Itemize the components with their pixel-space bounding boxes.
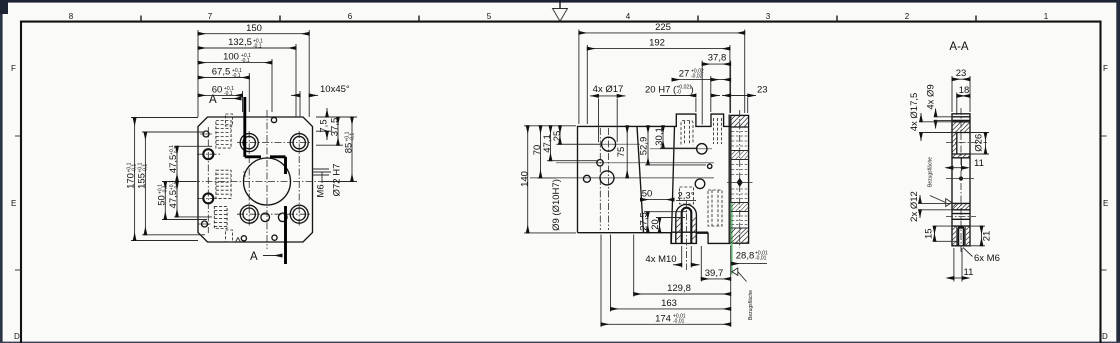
bottom dark line [0, 342, 1120, 343]
line 15 ref [934, 240, 957, 242]
svg-text:4x Ø17: 4x Ø17 [593, 84, 624, 95]
hole centerline horizontals [556, 143, 640, 145]
zone numbers top [69, 12, 1049, 21]
zone letters right [1102, 64, 1108, 341]
svg-text:174: 174 [655, 313, 671, 324]
small hole bottom mid [272, 235, 277, 240]
svg-text:39,7: 39,7 [705, 268, 724, 279]
svg-text:85: 85 [344, 143, 355, 154]
keyway hidden lines in bore left [243, 172, 248, 176]
dim 11 lower [954, 248, 962, 282]
dim 163 [611, 308, 731, 310]
svg-text:60: 60 [212, 84, 223, 95]
4x D17 hole lower [600, 171, 614, 185]
small hole bottom mid-left [241, 236, 246, 241]
hidden hole top center [226, 114, 233, 126]
svg-text:170: 170 [126, 173, 137, 189]
dim D26 [970, 132, 989, 134]
centering mark triangle [553, 0, 568, 21]
M6 side tap right edge [313, 169, 332, 175]
svg-text:20: 20 [650, 219, 661, 230]
svg-text:-0,1: -0,1 [349, 133, 355, 142]
dim 132,5 [198, 47, 296, 49]
body right edge vertical [728, 115, 730, 244]
svg-text:7,5: 7,5 [319, 119, 330, 132]
small hole top mid [271, 117, 276, 122]
bolt hole top-left inner [243, 136, 255, 148]
svg-text:Ø72 H7: Ø72 H7 [332, 164, 343, 197]
svg-text:23: 23 [956, 68, 967, 79]
dim 18 right view [957, 95, 970, 97]
hidden slot top center piece [681, 121, 693, 145]
dim 2x D12 [919, 195, 921, 203]
hidden slot bottom right region [708, 190, 722, 226]
svg-text:50: 50 [157, 195, 168, 206]
hidden thread block middle left [216, 170, 231, 198]
zone ticks left/right frame [15, 136, 1107, 270]
left dowel ring upper [203, 149, 213, 159]
face slant edge 2.3deg [637, 126, 644, 232]
bolt column centerline left [248, 131, 250, 226]
plate outline with chamfered corners [198, 117, 313, 242]
svg-text:D: D [1102, 332, 1108, 341]
top dark bar [0, 0, 1120, 3]
dim 50 vertical [164, 182, 166, 220]
hidden thread block bottom left [214, 206, 227, 228]
M6 tapped section band [952, 225, 970, 227]
svg-text:10x45°: 10x45° [320, 84, 350, 95]
dim 170 vertical [134, 118, 136, 241]
dim 192 [587, 48, 730, 50]
svg-text:-0,1: -0,1 [174, 181, 180, 190]
keyhole centerline [686, 201, 688, 270]
small hole top-left [203, 131, 209, 137]
svg-text:11: 11 [964, 267, 974, 278]
dim 52,9 [647, 126, 649, 165]
bolt hole bottom-right outer [290, 205, 308, 223]
svg-text:Ø9 (Ø10H7): Ø9 (Ø10H7) [551, 179, 562, 231]
svg-text:192: 192 [649, 38, 665, 49]
label M6 rotated [316, 184, 327, 197]
dim 4x D9 [935, 109, 937, 117]
svg-text:F: F [11, 64, 16, 73]
dim 7,5 vertical right [326, 108, 328, 117]
bolt column centerline right [298, 131, 300, 226]
M6 slot walls [958, 228, 964, 246]
right strip outline [731, 115, 749, 243]
bolt row centerline bottom [237, 213, 312, 215]
svg-text:18: 18 [959, 85, 970, 96]
svg-text:-0,01: -0,01 [755, 256, 767, 262]
dim 75 [626, 126, 628, 178]
hidden thread block upper left [216, 121, 231, 149]
top dimension extension lines [198, 30, 309, 117]
right cluster hole lower [695, 179, 705, 189]
svg-text:-0,01: -0,01 [673, 318, 685, 324]
D17.5 counterbore band [952, 121, 970, 123]
strip top hatch block [731, 116, 748, 127]
svg-text:37,5: 37,5 [330, 118, 341, 137]
center piece left edge [671, 126, 674, 243]
bolt hole top-right outer [290, 134, 308, 152]
bolt hole top-right inner [293, 136, 305, 148]
strip vertical centerline [739, 110, 741, 248]
hidden slot mid center piece [680, 187, 694, 204]
dim 85 vertical right [351, 117, 353, 182]
svg-text:-0,1: -0,1 [232, 73, 241, 79]
keyhole hatch [676, 217, 696, 241]
svg-text:21: 21 [982, 231, 993, 242]
svg-text:30,1: 30,1 [654, 127, 665, 146]
svg-text:140: 140 [519, 171, 530, 187]
strip hidden dashes [732, 132, 749, 225]
svg-text:2: 2 [905, 12, 910, 21]
dim 70 [540, 126, 542, 178]
svg-text:11: 11 [974, 158, 984, 169]
dim 27 [672, 79, 711, 81]
svg-text:27: 27 [679, 69, 690, 80]
dim 25 [559, 126, 561, 145]
section line A-A thick [243, 97, 246, 157]
svg-text:F: F [1103, 64, 1108, 73]
dim 47,1 [550, 126, 552, 161]
dim 129,8 [634, 293, 731, 295]
svg-text:28,8: 28,8 [736, 251, 755, 262]
4x D17 hole upper [602, 137, 616, 151]
svg-text:4x M10: 4x M10 [645, 254, 676, 265]
svg-text:-0,1: -0,1 [142, 164, 148, 173]
D9 hole [597, 160, 603, 166]
label D72 H7 rotated [332, 164, 343, 197]
zone ticks top [141, 16, 976, 22]
dim 47,5 upper vertical [176, 146, 178, 181]
right cluster hole upper [697, 144, 707, 154]
svg-text:): ) [691, 85, 694, 96]
M10 keyhole slot inner [682, 208, 692, 244]
dim 20 H7 [660, 95, 696, 97]
dim 23 mid [722, 95, 731, 97]
strip left edge green datum line [731, 203, 733, 275]
svg-text:4x Ø9: 4x Ø9 [926, 84, 937, 109]
svg-text:-0,02: -0,02 [691, 74, 703, 80]
dim 150 [198, 33, 309, 35]
svg-text:23: 23 [757, 85, 768, 96]
svg-text:52,9: 52,9 [639, 137, 650, 156]
dowel ring centerlines [197, 153, 222, 155]
band below notch [952, 157, 970, 159]
dim 67,5 [198, 77, 249, 79]
dim 10x45 chamfer [291, 94, 300, 96]
left holes column centerline [207, 127, 209, 233]
svg-text:47,5: 47,5 [168, 190, 179, 209]
bar vertical centerline [960, 108, 962, 252]
svg-text:Ø26: Ø26 [974, 134, 985, 152]
dim 27,5 [647, 212, 649, 233]
dim 4x D17,5 [920, 113, 922, 122]
left dimension extension lines [131, 118, 212, 241]
bottom dim extension lines [601, 235, 731, 328]
lines below D12 band [952, 213, 970, 215]
D9 hole lines [952, 116, 970, 118]
label D9 (D10H7) rotated [551, 179, 562, 231]
svg-text:25: 25 [552, 131, 563, 142]
datum flag right view [946, 199, 952, 207]
dim 100 [198, 62, 272, 64]
svg-text:15: 15 [924, 228, 935, 239]
svg-text:2,3°: 2,3° [677, 191, 694, 202]
svg-text:A-A: A-A [949, 41, 969, 53]
strip mid hatch band [731, 150, 749, 152]
right dimension extension lines [316, 117, 357, 182]
bar outline [952, 114, 970, 246]
svg-text:27,5: 27,5 [639, 212, 650, 231]
hidden hole bottom center [226, 230, 233, 242]
dim 174 [601, 323, 731, 325]
body outline top profile [578, 114, 731, 233]
svg-text:7: 7 [208, 12, 213, 21]
M10 keyhole slot outer [676, 204, 697, 243]
svg-text:6: 6 [348, 12, 353, 21]
hidden marks top tab2 [714, 118, 722, 144]
svg-text:6x M6: 6x M6 [974, 253, 1000, 264]
label 6x M6 [963, 248, 973, 257]
svg-text:8: 8 [69, 12, 74, 21]
zone letters left [11, 64, 20, 341]
right dark edge [1116, 0, 1120, 343]
svg-text:A: A [250, 251, 258, 263]
svg-text:75: 75 [616, 147, 627, 158]
svg-text:47,5: 47,5 [168, 155, 179, 174]
horizontal centerline big bore [193, 181, 322, 183]
big center bore D72 H7 [244, 158, 291, 205]
svg-text:-0,1: -0,1 [131, 164, 137, 173]
dim 21 [970, 225, 985, 227]
bolt hole top-left outer [240, 134, 258, 152]
svg-text:100: 100 [223, 52, 239, 63]
left dark edge [0, 0, 3, 343]
dim 50 horizontal [641, 199, 675, 201]
svg-text:1: 1 [1044, 12, 1049, 21]
svg-text:129,8: 129,8 [667, 283, 691, 294]
dim 37,8 [702, 63, 730, 65]
svg-text:155: 155 [137, 173, 148, 189]
D26 centerline [946, 142, 987, 144]
svg-text:-0,1: -0,1 [174, 146, 180, 155]
svg-text:E: E [11, 199, 16, 208]
dim 225 [579, 32, 745, 34]
hole centerline verticals [599, 128, 601, 230]
svg-text:3: 3 [766, 12, 771, 21]
dim 4x M10 [673, 264, 682, 266]
svg-text:E: E [1103, 199, 1108, 208]
bolt hole bottom-right inner [293, 208, 305, 220]
label Bezugsflaeche middle rotated [748, 290, 754, 320]
svg-text:Bezugsfläche: Bezugsfläche [928, 157, 934, 187]
svg-text:67,5: 67,5 [212, 67, 231, 78]
dim 28,8 [732, 263, 767, 265]
svg-text:37,8: 37,8 [708, 53, 727, 64]
internal face edge across center piece [671, 231, 708, 233]
dim 155 vertical [144, 132, 146, 235]
strip bottom hatch block [731, 227, 749, 229]
svg-text:225: 225 [655, 22, 671, 33]
top dim extension lines [579, 30, 748, 143]
svg-text:2x Ø12: 2x Ø12 [909, 191, 920, 222]
surface mark bottom edge [236, 238, 241, 243]
bolt hole bottom-left outer [240, 205, 258, 223]
dim 140 [527, 126, 529, 233]
dot marker on centerline [959, 177, 963, 181]
svg-text:Bezugsfläche: Bezugsfläche [748, 290, 754, 320]
mid holes beside bottom-left bolt [261, 213, 270, 222]
svg-text:20 H7 (: 20 H7 ( [645, 85, 677, 96]
D26 counterbore notch [956, 133, 958, 155]
bolt hole bottom-left inner [243, 208, 255, 220]
bolt row centerline top [237, 142, 312, 144]
svg-text:132,5: 132,5 [228, 37, 252, 48]
dim 60 [198, 94, 243, 96]
strip lower hatch band [731, 202, 749, 204]
dim 30,1 [662, 126, 664, 148]
left dim extension lines [524, 126, 600, 233]
dim 15 [934, 226, 936, 241]
small hole left [583, 175, 590, 182]
datum flag middle [732, 268, 738, 275]
left dowel ring lower [203, 193, 213, 203]
dim 4x D17 [590, 95, 599, 97]
svg-text:150: 150 [246, 23, 262, 34]
small hole bottom-left [202, 221, 208, 227]
dim 20 lower [659, 218, 661, 233]
dim 47,5 lower vertical [176, 182, 178, 217]
right cluster hole small [708, 164, 712, 168]
svg-text:-0,1: -0,1 [241, 58, 250, 64]
dim 23 right view [952, 76, 970, 115]
svg-text:50: 50 [642, 189, 653, 200]
svg-text:D: D [14, 332, 20, 341]
dim 39,7 [701, 278, 730, 280]
dim 11 upper [961, 159, 963, 172]
svg-text:-0,1: -0,1 [253, 44, 262, 50]
svg-text:5: 5 [487, 12, 492, 21]
2x D12 band [952, 202, 970, 204]
svg-text:163: 163 [661, 298, 677, 309]
vertical centerline big bore [266, 110, 268, 249]
dim 37,5 vertical right [337, 117, 339, 145]
svg-text:-0,1: -0,1 [224, 91, 233, 97]
body outline bottom profile [578, 233, 731, 244]
svg-text:4x Ø17,5: 4x Ø17,5 [909, 93, 920, 132]
label Bezugsflaeche right rotated [928, 157, 934, 187]
svg-text:-0: -0 [677, 90, 682, 96]
svg-text:M6: M6 [316, 184, 327, 197]
strip diamond mark [737, 178, 743, 187]
svg-text:4: 4 [626, 12, 631, 21]
